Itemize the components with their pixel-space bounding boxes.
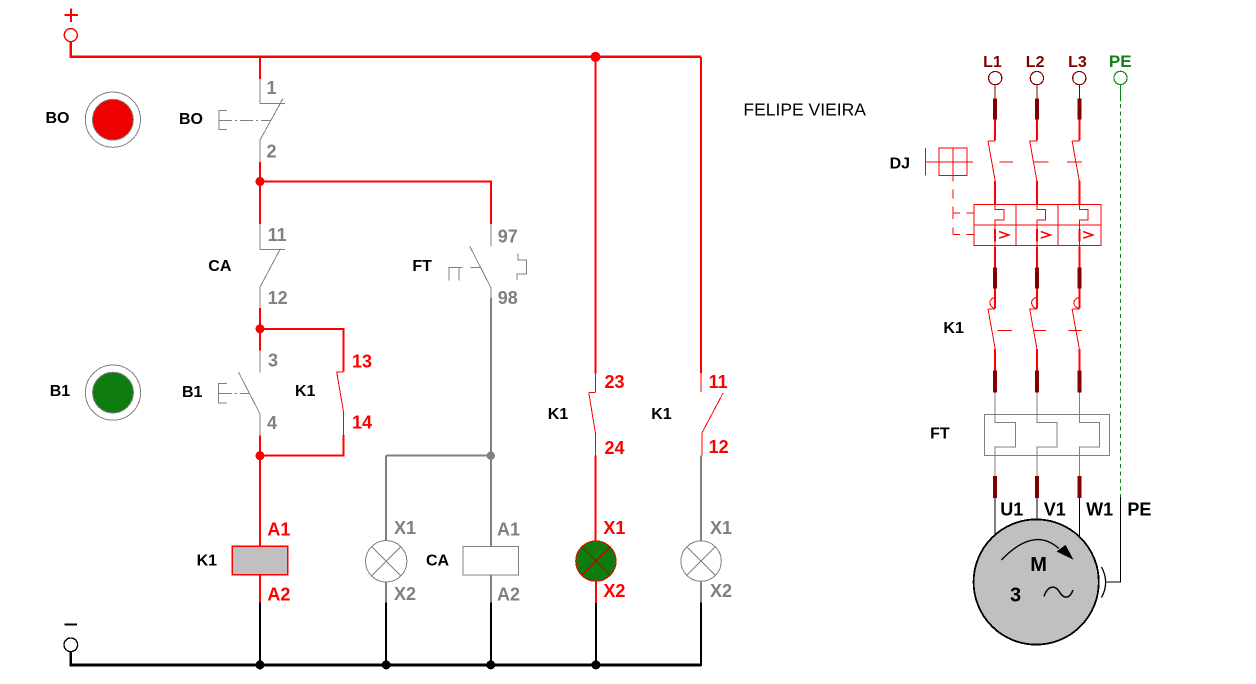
svg-text:B1: B1: [182, 384, 203, 401]
svg-text:PE: PE: [1127, 499, 1151, 519]
node - (negative supply terminal): [64, 625, 78, 652]
terminal bar L2: [1035, 99, 1039, 120]
lamp H1 (white indicator X1-X2): [366, 541, 407, 582]
wire K1 to FT pole 3: [1078, 393, 1080, 415]
svg-text:X1: X1: [710, 518, 732, 538]
breaker DJ thermal element pole 3: [1079, 204, 1088, 246]
svg-text:BO: BO: [46, 110, 70, 127]
svg-text:CA: CA: [426, 553, 450, 570]
terminal bar U1: [993, 476, 997, 498]
svg-text:A1: A1: [267, 519, 290, 539]
wire K1 to FT pole 2: [1036, 393, 1038, 415]
svg-text:3: 3: [268, 351, 278, 371]
contact CA NC (pins 11-12): [260, 224, 285, 308]
node B (junction): [256, 324, 265, 333]
pushbutton BO indicator (red button): [85, 92, 140, 147]
breaker DJ magnetic trip I> pole 1: [995, 229, 1009, 241]
terminal bar W1: [1077, 476, 1081, 498]
wire lamp H3 to bottom rail: [700, 581, 702, 666]
svg-text:FELIPE VIEIRA: FELIPE VIEIRA: [743, 100, 866, 120]
node A (junction): [256, 177, 265, 186]
svg-text:11: 11: [709, 372, 728, 392]
breaker DJ trip unit box: [974, 204, 1101, 245]
wire rail node to K1 23 contact: [595, 57, 597, 374]
contactor K1 linkage dashes: [997, 329, 1081, 331]
wire coil CA to bottom rail: [490, 575, 492, 665]
svg-text:L2: L2: [1026, 54, 1045, 71]
svg-text:12: 12: [268, 288, 288, 308]
terminal bar V1: [1035, 476, 1039, 498]
wire to lamp X1: [385, 456, 387, 541]
wire FT 98 down to node D: [490, 298, 492, 456]
wire from rail to BO contact: [259, 57, 261, 79]
svg-text:K1: K1: [651, 406, 672, 423]
svg-text:98: 98: [498, 288, 518, 308]
contact K1 NC (pins 11-12): [701, 373, 723, 456]
breaker DJ magnetic trip I> pole 2: [1037, 229, 1051, 241]
motor M1 (3~ induction motor): [974, 519, 1099, 644]
svg-text:A2: A2: [497, 585, 520, 605]
svg-text:K1: K1: [197, 553, 218, 570]
svg-text:X1: X1: [603, 518, 625, 538]
junction dot bottom rail at H2: [591, 660, 600, 669]
svg-text:FT: FT: [930, 426, 950, 443]
breaker DJ manual operator (crossed box): [925, 148, 973, 182]
wire top rail to K1 11 contact: [700, 57, 702, 373]
svg-text:PE: PE: [1109, 52, 1132, 71]
wire PE to motor (black): [1107, 497, 1121, 582]
wire L1 lead: [994, 85, 996, 99]
breaker DJ pole 1 contact: [988, 120, 995, 205]
wire node C to coil K1: [259, 456, 261, 547]
svg-text:X1: X1: [394, 518, 416, 538]
svg-text:23: 23: [605, 372, 625, 392]
wire FT to motor pole 2: [1036, 456, 1038, 476]
contact K1 NO auxiliary (pins 13-14): [337, 372, 344, 435]
overload FT heater pole 3: [1079, 415, 1099, 456]
node D (gray junction): [487, 452, 495, 460]
wire node A to FT branch: [260, 182, 491, 224]
wire FT to motor pole 3: [1078, 456, 1080, 476]
junction dot bottom rail at H1: [382, 660, 391, 669]
wire DJ to K1 pole 3: [1078, 246, 1080, 267]
wire lamp H1 to bottom rail: [385, 582, 387, 665]
wire bottom rail (-): [71, 652, 701, 665]
wire B1 to node C: [259, 435, 261, 455]
svg-text:3: 3: [1010, 585, 1021, 607]
svg-text:CA: CA: [208, 258, 232, 275]
svg-text:K1: K1: [548, 406, 569, 423]
lamp H3 (white indicator X1-X2): [681, 541, 721, 581]
wire PE dashed green: [1120, 104, 1122, 497]
svg-text:DJ: DJ: [890, 156, 910, 173]
breaker DJ linkage (dashed): [953, 189, 974, 234]
terminal bar pole 3: [1077, 268, 1081, 289]
pushbutton B1 indicator (green button): [85, 365, 140, 420]
svg-text:X2: X2: [603, 581, 625, 601]
wire lamp H2 to bottom rail: [595, 581, 597, 665]
coil CA (relay coil A1-A2): [463, 546, 518, 575]
svg-text:L3: L3: [1068, 54, 1087, 71]
wire K1 to FT pole 1: [994, 393, 996, 415]
wire DJ to K1 pole 1: [994, 246, 996, 267]
wire K1 12 to lamp H3: [700, 456, 702, 541]
coil K1 (contactor coil A1-A2): [232, 546, 287, 575]
wire FT to motor pole 1: [994, 456, 996, 476]
junction dot bottom rail at K1: [256, 660, 265, 669]
node + (positive supply terminal): [64, 8, 78, 41]
svg-text:A2: A2: [267, 585, 290, 605]
wire W1 to motor: [1078, 498, 1080, 539]
svg-text:K1: K1: [295, 383, 316, 400]
breaker DJ thermal element pole 2: [1037, 204, 1046, 246]
svg-text:4: 4: [267, 413, 277, 433]
wire node D to coil CA: [490, 456, 492, 547]
wire K1 14 back to node C: [260, 435, 343, 455]
contact K1 NO (pins 23-24): [589, 374, 596, 456]
wire top rail (+): [71, 42, 701, 57]
svg-text:L1: L1: [983, 54, 1002, 71]
breaker DJ pole 2 contact: [1030, 120, 1037, 205]
svg-text:K1: K1: [943, 320, 964, 337]
wire V1 to motor: [1036, 498, 1038, 522]
svg-text:M: M: [1030, 554, 1047, 576]
breaker DJ pole 3 contact: [1072, 120, 1079, 205]
wire U1 to motor: [994, 498, 996, 538]
breaker DJ pole linkage dashes: [999, 161, 1081, 163]
svg-text:BO: BO: [179, 111, 203, 128]
overload relay FT box: [985, 415, 1110, 456]
wire coil K1 to bottom rail: [259, 575, 261, 665]
svg-text:13: 13: [352, 352, 372, 372]
svg-text:11: 11: [268, 225, 287, 245]
PE connection arc at motor: [1102, 567, 1106, 598]
svg-text:B1: B1: [50, 383, 71, 400]
svg-text:X2: X2: [394, 584, 416, 604]
breaker DJ thermal element pole 1: [995, 204, 1004, 246]
wire node B to B1 contact: [259, 329, 261, 351]
terminal bar below K1 pole 3: [1077, 371, 1081, 393]
svg-text:A1: A1: [497, 519, 520, 539]
wire L3 lead: [1078, 85, 1080, 99]
svg-text:W1: W1: [1086, 499, 1113, 519]
terminal bar below K1 pole 1: [993, 371, 997, 393]
wire PE solid green: [1120, 85, 1122, 102]
net L2 terminal: [1026, 54, 1045, 85]
wire BO to node A: [259, 162, 261, 182]
contact FT NC thermal (pins 97-98): [449, 224, 526, 298]
svg-text:X2: X2: [710, 581, 732, 601]
svg-text:V1: V1: [1044, 499, 1066, 519]
svg-text:2: 2: [267, 142, 277, 162]
wire DJ to K1 pole 2: [1036, 246, 1038, 267]
terminal bar L3: [1077, 99, 1081, 120]
contactor K1 pole 1: [988, 289, 995, 371]
terminal bar pole 1: [993, 268, 997, 289]
overload FT heater pole 2: [1037, 415, 1057, 456]
terminal bar below K1 pole 2: [1035, 371, 1039, 393]
svg-text:14: 14: [352, 413, 372, 433]
contact BO NC pushbutton (pins 1-2): [219, 79, 285, 162]
contactor K1 pole 3: [1072, 289, 1079, 371]
net L1 terminal: [983, 54, 1002, 85]
wire K1 24 to lamp H2: [595, 456, 597, 541]
contactor K1 pole 2: [1030, 289, 1037, 371]
wire node B to K1 13 branch: [260, 329, 343, 372]
breaker DJ magnetic trip I> pole 3: [1079, 229, 1093, 241]
wire node A to CA contact: [259, 182, 261, 224]
wire CA to node B: [259, 308, 261, 329]
overload FT heater pole 1: [995, 415, 1015, 456]
svg-text:97: 97: [498, 227, 518, 247]
junction dot bottom rail at CA: [486, 660, 495, 669]
svg-text:12: 12: [709, 437, 729, 457]
node C (junction): [256, 451, 265, 460]
svg-text:1: 1: [267, 78, 277, 98]
wire L2 lead: [1036, 85, 1038, 99]
svg-text:FT: FT: [412, 258, 432, 275]
junction node on top rail: [591, 52, 601, 62]
contact B1 NO pushbutton (pins 3-4): [219, 351, 260, 436]
lamp H2 (green indicator X1-X2): [576, 541, 616, 581]
svg-text:24: 24: [605, 438, 625, 458]
svg-text:U1: U1: [1000, 499, 1023, 519]
net L3 terminal: [1068, 54, 1087, 85]
terminal bar pole 2: [1035, 268, 1039, 289]
terminal bar L1: [993, 99, 997, 120]
wire node D to lamp branch: [386, 455, 491, 457]
net PE terminal: [1109, 52, 1132, 85]
